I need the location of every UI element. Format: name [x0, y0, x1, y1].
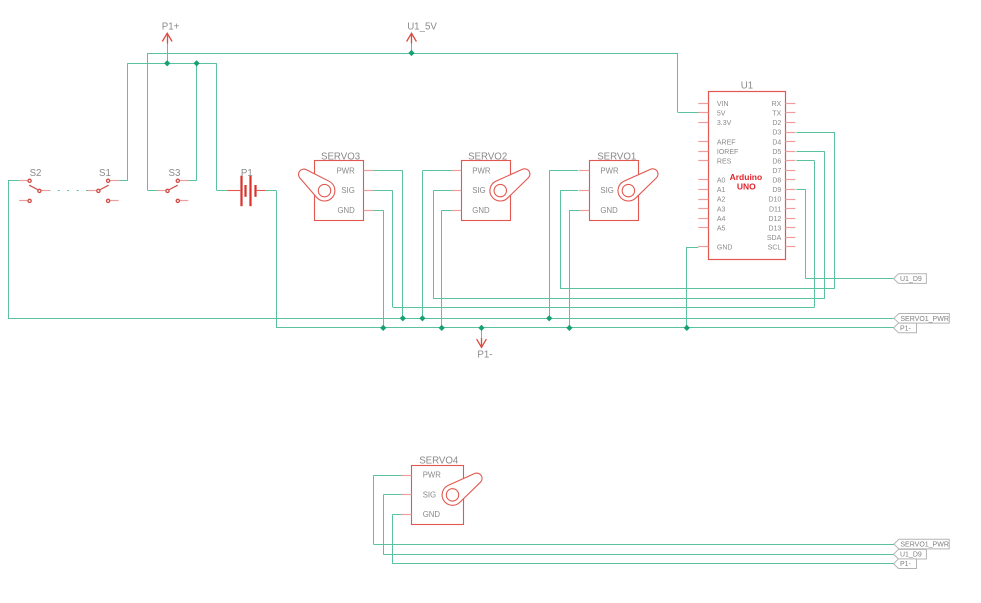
- svg-text:U1_D9: U1_D9: [900, 276, 922, 283]
- svg-text:U1_5V: U1_5V: [407, 21, 437, 32]
- svg-text:D10: D10: [768, 197, 781, 204]
- svg-text:RES: RES: [717, 158, 732, 165]
- svg-text:D9: D9: [772, 187, 781, 194]
- svg-text:GND: GND: [600, 206, 618, 215]
- svg-text:D4: D4: [772, 139, 781, 146]
- svg-text:D12: D12: [768, 216, 781, 223]
- svg-text:TX: TX: [772, 111, 781, 118]
- svg-text:D13: D13: [768, 225, 781, 232]
- svg-text:PWR: PWR: [423, 471, 442, 480]
- svg-text:U1: U1: [741, 80, 753, 91]
- svg-text:SERVO1: SERVO1: [597, 151, 636, 162]
- svg-text:D2: D2: [772, 120, 781, 127]
- svg-text:D6: D6: [772, 158, 781, 165]
- svg-text:SDA: SDA: [767, 235, 782, 242]
- svg-text:P1-: P1-: [477, 350, 492, 361]
- svg-text:GND: GND: [337, 206, 355, 215]
- svg-text:D7: D7: [772, 168, 781, 175]
- svg-text:A3: A3: [717, 206, 726, 213]
- svg-text:GND: GND: [472, 206, 490, 215]
- svg-text:SERVO3: SERVO3: [321, 151, 360, 162]
- svg-text:3.3V: 3.3V: [717, 120, 732, 127]
- svg-text:5V: 5V: [717, 111, 726, 118]
- svg-text:D5: D5: [772, 149, 781, 156]
- svg-text:U1_D9: U1_D9: [900, 552, 922, 559]
- svg-text:SIG: SIG: [600, 186, 613, 195]
- svg-text:P1-: P1-: [900, 325, 912, 332]
- svg-text:SCL: SCL: [768, 245, 782, 252]
- svg-text:GND: GND: [423, 510, 441, 519]
- svg-text:A5: A5: [717, 225, 726, 232]
- svg-text:S1: S1: [99, 168, 111, 179]
- svg-text:P1+: P1+: [162, 21, 180, 32]
- svg-text:RX: RX: [772, 101, 782, 108]
- svg-text:UNO: UNO: [737, 181, 756, 191]
- svg-text:IOREF: IOREF: [717, 149, 738, 156]
- svg-text:SERVO4: SERVO4: [419, 456, 459, 467]
- svg-text:D11: D11: [769, 206, 781, 213]
- svg-text:A4: A4: [717, 216, 726, 223]
- svg-text:PWR: PWR: [600, 166, 619, 175]
- svg-text:AREF: AREF: [717, 139, 736, 146]
- svg-text:SIG: SIG: [423, 490, 436, 499]
- svg-text:GND: GND: [717, 245, 733, 252]
- svg-text:VIN: VIN: [717, 101, 729, 108]
- svg-text:PWR: PWR: [337, 166, 356, 175]
- svg-text:SIG: SIG: [341, 186, 354, 195]
- svg-text:A1: A1: [717, 187, 726, 194]
- svg-text:SERVO2: SERVO2: [468, 151, 507, 162]
- svg-text:SERVO1_PWR: SERVO1_PWR: [900, 542, 949, 549]
- svg-text:PWR: PWR: [472, 166, 491, 175]
- svg-text:SERVO1_PWR: SERVO1_PWR: [900, 316, 949, 323]
- svg-text:P1: P1: [241, 168, 253, 179]
- svg-text:SIG: SIG: [472, 186, 485, 195]
- svg-text:D3: D3: [772, 130, 781, 137]
- svg-text:P1-: P1-: [900, 561, 912, 568]
- svg-text:S3: S3: [169, 168, 181, 179]
- svg-text:A2: A2: [717, 197, 726, 204]
- svg-text:S2: S2: [30, 168, 42, 179]
- svg-text:D8: D8: [772, 178, 781, 185]
- svg-text:A0: A0: [717, 178, 726, 185]
